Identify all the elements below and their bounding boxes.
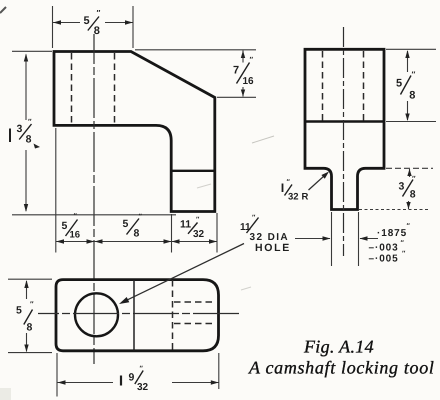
svg-text:3: 3 xyxy=(399,180,405,192)
front view outline xyxy=(54,52,215,212)
text bottom 5/8 xyxy=(123,214,143,240)
front view step line xyxy=(171,170,215,172)
svg-text:8: 8 xyxy=(134,228,140,240)
front view hidden hole line left xyxy=(71,53,73,125)
svg-text:5: 5 xyxy=(16,305,22,317)
svg-text:5: 5 xyxy=(123,218,129,230)
leader arrow 1/32R xyxy=(309,174,327,190)
front view hidden hole line right xyxy=(114,53,116,125)
page shadow bottom-left xyxy=(0,388,11,400)
svg-text:8: 8 xyxy=(409,90,415,102)
svg-text:″: ″ xyxy=(412,70,416,79)
plan view hidden stem line top xyxy=(174,301,213,303)
svg-text:R: R xyxy=(302,192,309,203)
dim top 5/8 ext lines xyxy=(52,6,54,48)
text 5/16 xyxy=(62,213,81,241)
svg-text:32: 32 xyxy=(193,229,205,240)
dim left 1-3/8 ext lines xyxy=(12,50,52,52)
svg-text:7: 7 xyxy=(233,64,239,76)
svg-text:Fig. A.14: Fig. A.14 xyxy=(303,337,374,357)
plan view edge line xyxy=(133,280,135,351)
text side 5/8 xyxy=(396,70,416,102)
dim side 5/8 ext lines xyxy=(386,48,436,50)
dim left 1-3/8 line xyxy=(25,55,27,121)
side view hidden hole line right xyxy=(363,51,365,121)
svg-text:3: 3 xyxy=(17,123,23,135)
svg-text:5: 5 xyxy=(62,220,68,232)
dim side 3/8 ext lines xyxy=(386,167,433,169)
svg-text:″: ″ xyxy=(250,55,254,64)
svg-text:8: 8 xyxy=(27,322,33,334)
side view mid line xyxy=(305,120,384,122)
svg-text:9: 9 xyxy=(129,371,135,383)
dim plan 1-9/32 ext lines xyxy=(56,353,58,397)
dim .1875 ext lines xyxy=(331,212,333,266)
dim 7/16 arrows xyxy=(242,51,244,63)
dim bottom row ext lines xyxy=(55,128,57,253)
plan view hidden stem line bottom xyxy=(174,323,213,325)
svg-text:″: ″ xyxy=(28,117,32,126)
leader arrow to hole xyxy=(123,244,244,303)
text left 1 3/8 xyxy=(10,117,40,149)
plan view hidden leg line xyxy=(172,280,174,351)
text 7/16 xyxy=(233,55,254,87)
svg-text:8: 8 xyxy=(94,25,100,37)
svg-text:16: 16 xyxy=(70,230,81,241)
text 11/32 DIA HOLE xyxy=(240,215,291,254)
dim side 3/8 arrows xyxy=(409,169,411,177)
svg-text:″: ″ xyxy=(412,174,416,183)
dim bottom row line xyxy=(56,241,217,243)
text -.005 xyxy=(369,251,407,265)
vertical centerline front+plan xyxy=(93,34,95,364)
svg-text:32: 32 xyxy=(288,192,299,203)
dim plan 5/8 ext lines xyxy=(8,278,52,280)
plan view horizontal centerline xyxy=(38,313,241,315)
text 1/32 R xyxy=(283,179,309,203)
dim plan 1-9/32 line xyxy=(58,382,114,384)
side view vertical centerline xyxy=(343,27,345,256)
svg-text:11: 11 xyxy=(180,219,191,231)
faint scan artifact near chamfer xyxy=(252,136,274,143)
faint scan artifact in front view xyxy=(197,184,211,188)
faint scan artifact above plan view xyxy=(241,287,251,290)
svg-text:·1875: ·1875 xyxy=(377,228,407,239)
svg-text:5: 5 xyxy=(84,15,90,27)
dim side 5/8 line xyxy=(407,51,409,72)
text top 5/8 xyxy=(84,9,101,37)
dim 7/16 ext lines xyxy=(135,49,256,51)
dim plan 5/8 line xyxy=(26,281,28,299)
text plan 5/8 xyxy=(16,300,34,334)
scan mark top-left corner xyxy=(0,7,6,13)
text 1 9/32 xyxy=(121,366,149,394)
plan view outline xyxy=(56,280,219,351)
svg-text:8: 8 xyxy=(26,134,32,146)
text 11/32 xyxy=(180,217,205,240)
svg-text:–·003: –·003 xyxy=(369,243,399,254)
text side 3/8 xyxy=(399,174,417,200)
svg-text:″: ″ xyxy=(97,9,101,18)
side view hidden hole line left xyxy=(322,51,324,121)
svg-text:32: 32 xyxy=(137,382,149,393)
dim .1875 arrows xyxy=(295,238,330,240)
svg-text:–·005: –·005 xyxy=(369,254,399,265)
svg-text:″: ″ xyxy=(30,300,34,309)
svg-text:8: 8 xyxy=(410,188,416,200)
svg-text:16: 16 xyxy=(243,76,255,87)
dim top 5/8 line xyxy=(53,22,80,24)
text .1875 xyxy=(377,223,411,239)
svg-text:5: 5 xyxy=(396,77,402,89)
text -.003 xyxy=(369,240,405,254)
side view outline xyxy=(305,49,384,209)
svg-text:HOLE: HOLE xyxy=(255,242,291,254)
hole circle xyxy=(75,293,118,336)
svg-text:A camshaft locking tool: A camshaft locking tool xyxy=(248,358,435,378)
